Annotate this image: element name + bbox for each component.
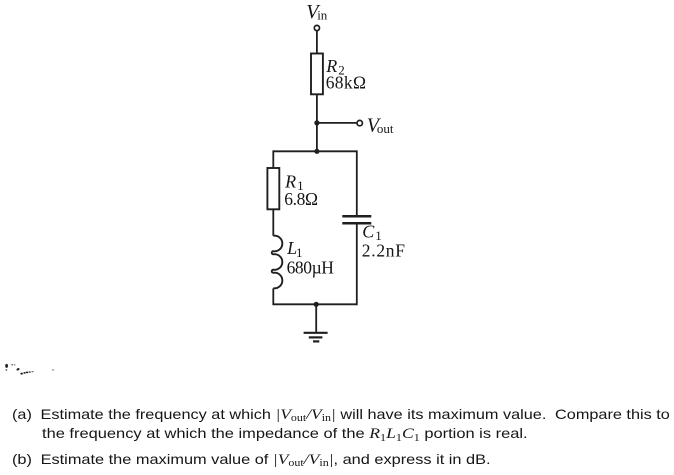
node Vin terminal <box>314 25 319 30</box>
svg-text:68kΩ: 68kΩ <box>326 72 366 92</box>
wire right branch lower <box>356 223 358 305</box>
inductor L1 coil <box>272 236 283 289</box>
svg-text:in: in <box>317 7 328 22</box>
text line (a) row 1 <box>12 408 670 423</box>
resistor R1 body <box>267 168 279 209</box>
label R2 with value 68kΩ <box>325 56 366 92</box>
svg-text:out: out <box>377 121 394 136</box>
label R1 with value 6.8Ω <box>284 171 318 208</box>
label L1 with value 680µH <box>286 238 334 277</box>
node Vout terminal <box>357 120 362 125</box>
wire L1 to bottom rail <box>272 288 274 305</box>
wire to Vout terminal <box>317 122 357 124</box>
text line (b) <box>12 453 491 468</box>
wire to ground <box>315 304 317 332</box>
ground symbol <box>304 333 328 342</box>
resistor R2 body <box>311 54 323 95</box>
label C1 with value 2.2nF <box>362 221 405 260</box>
capacitor C1 bottom plate <box>342 222 371 225</box>
node junction bottom rail <box>314 302 319 307</box>
capacitor C1 top plate <box>342 215 371 218</box>
wire top rail to R1 <box>272 150 274 168</box>
wire bottom rail <box>273 303 357 305</box>
wire right branch upper <box>356 150 358 216</box>
svg-text:C: C <box>362 221 375 241</box>
node junction at Vout tap <box>314 120 319 125</box>
svg-text:680µH: 680µH <box>287 258 335 278</box>
text line (a) row 2 <box>42 427 528 442</box>
wire top rail <box>273 150 357 152</box>
svg-text:6.8Ω: 6.8Ω <box>284 189 318 209</box>
label Vout <box>367 115 394 137</box>
smudge artifact marks <box>5 364 54 375</box>
wire R2 to top rail <box>316 94 318 151</box>
node junction top rail <box>314 149 319 154</box>
wire R1 to L1 <box>272 209 274 236</box>
label Vin <box>306 1 328 23</box>
wire Vin to R2 <box>316 31 318 54</box>
svg-text:2.2nF: 2.2nF <box>362 241 405 261</box>
